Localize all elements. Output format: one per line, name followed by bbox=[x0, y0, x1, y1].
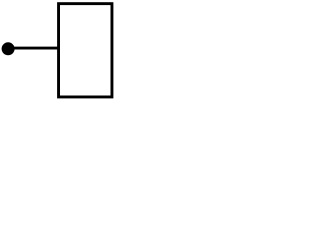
component box (rectangular component body) bbox=[59, 4, 112, 97]
node (filled terminal dot) bbox=[2, 42, 15, 55]
wire (horizontal lead from node to component box) bbox=[8, 47, 58, 50]
